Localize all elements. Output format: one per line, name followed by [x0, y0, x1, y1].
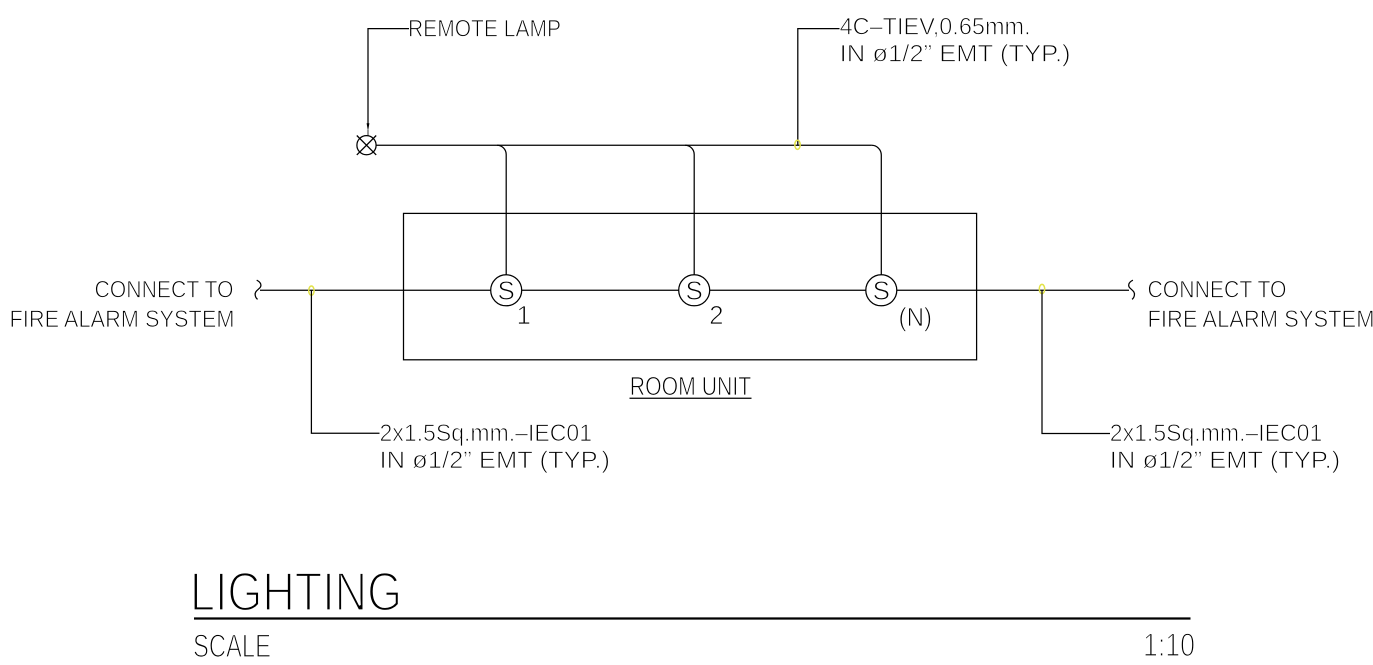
title underline [194, 617, 1191, 619]
svg-text:2x1.5Sq.mm.–IEC01: 2x1.5Sq.mm.–IEC01 [1110, 420, 1323, 447]
leader for conduit note 4C-TIEV [798, 29, 840, 145]
svg-text:CONNECT TO: CONNECT TO [95, 277, 234, 304]
svg-text:S: S [498, 276, 515, 306]
wire: bus between S2 and SN [710, 289, 866, 291]
svg-text:2x1.5Sq.mm.–IEC01: 2x1.5Sq.mm.–IEC01 [380, 420, 593, 447]
yellow tick on left drop [309, 286, 314, 295]
svg-text:FIRE ALARM SYSTEM: FIRE ALARM SYSTEM [1148, 306, 1373, 333]
yellow tick on right drop [1039, 284, 1044, 293]
svg-text:IN ø1/2” EMT (TYP.): IN ø1/2” EMT (TYP.) [840, 41, 1071, 68]
svg-text:S: S [686, 276, 703, 306]
svg-text:SCALE: SCALE [193, 628, 271, 660]
leader arrowhead [367, 123, 370, 136]
yellow tick on top bus [795, 140, 800, 149]
wire: vertical drop to switch N [880, 155, 882, 275]
node: left break symbol [255, 280, 261, 299]
switch SN [866, 275, 897, 306]
svg-text:IN ø1/2” EMT (TYP.): IN ø1/2” EMT (TYP.) [1110, 447, 1341, 474]
node: right break symbol [1129, 280, 1135, 299]
wire: bus left segment [260, 289, 491, 291]
wire: bus between S1 and S2 [522, 289, 679, 291]
room unit enclosure rectangle [404, 213, 977, 359]
switch S1 [491, 275, 522, 306]
switch S2 [679, 275, 710, 306]
svg-text:4C–TIEV,0.65mm.: 4C–TIEV,0.65mm. [840, 14, 1031, 41]
wire: vertical drop to switch 1 [505, 155, 507, 275]
svg-text:2: 2 [709, 300, 723, 330]
wire fillet into drop 3 [872, 145, 882, 155]
svg-text:1:10: 1:10 [1143, 627, 1195, 660]
svg-text:ROOM UNIT: ROOM UNIT [630, 371, 752, 401]
wire fillet into drop 1 [497, 145, 506, 154]
wire fillet into drop 2 [685, 145, 694, 154]
wire: top bus from lamp to last drop [376, 144, 871, 146]
svg-text:LIGHTING: LIGHTING [190, 560, 402, 622]
wire: left cable drop [311, 290, 379, 433]
wire: right cable drop [1042, 290, 1110, 433]
svg-text:IN ø1/2” EMT (TYP.): IN ø1/2” EMT (TYP.) [380, 447, 611, 474]
svg-text:(N): (N) [899, 302, 933, 332]
svg-text:S: S [873, 276, 890, 306]
svg-text:REMOTE LAMP: REMOTE LAMP [408, 16, 561, 43]
wire: bus right segment [897, 289, 1129, 291]
svg-text:CONNECT TO: CONNECT TO [1148, 277, 1287, 304]
room unit caption underline [630, 397, 752, 399]
svg-text:1: 1 [516, 300, 530, 330]
leader to remote lamp [368, 29, 409, 124]
svg-text:FIRE ALARM SYSTEM: FIRE ALARM SYSTEM [10, 306, 235, 333]
wire: vertical drop to switch 2 [693, 155, 695, 275]
lamp L1 (remote lamp symbol) [357, 136, 376, 155]
